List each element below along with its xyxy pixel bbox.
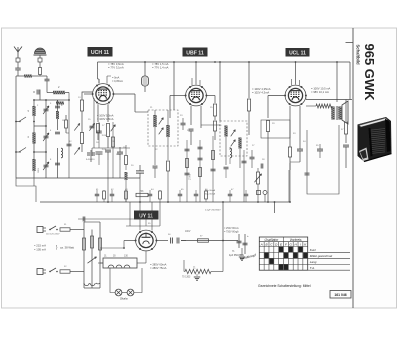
input capacitor (15, 67, 21, 69)
UBF11 bottom leads (190, 106, 192, 125)
choke coil (316, 104, 332, 108)
switch position table (259, 237, 307, 270)
UCH11 right lead (113, 93, 135, 95)
IF1 ground capacitor (153, 165, 158, 167)
electrolytic ground (241, 248, 243, 256)
UBF screen capacitor (189, 128, 194, 130)
input coil (24, 75, 32, 78)
svg-text:UY 11: UY 11 (139, 213, 153, 219)
mains plug upper (37, 227, 43, 233)
svg-text:= 78V 3,6mA: = 78V 3,6mA (108, 62, 124, 66)
tubular capacitor 14 (144, 62, 146, 76)
svg-text:161 046: 161 046 (334, 293, 346, 297)
AF filter chain 1 (186, 140, 188, 202)
chassis bus left step (16, 178, 36, 202)
antenna (14, 47, 22, 53)
decoupling capacitor UCH (105, 149, 111, 151)
lamp link wire (122, 292, 127, 294)
IF1 input wire (134, 94, 136, 112)
svg-text:T.A.: T.A. (310, 266, 315, 270)
earth antenna symbol (35, 48, 46, 54)
svg-text:= 77V 1,4 mA: = 77V 1,4 mA (152, 66, 169, 70)
filter components above bus (95, 193, 100, 195)
antenna lead wire (17, 62, 19, 66)
UY11 right lead (156, 240, 168, 242)
trimmer resistor 11 (65, 120, 68, 128)
UCH osc resistor (125, 156, 128, 165)
sidebar separator line (352, 28, 354, 308)
phono jack (257, 191, 261, 195)
UBF11 top leads (191, 78, 193, 85)
tube UY11 rectifier (136, 230, 157, 251)
svg-text:0,1μF 250/350V: 0,1μF 250/350V (205, 210, 221, 212)
coil 10 (56, 102, 64, 105)
IF1 primary coil (153, 115, 156, 127)
wire 223 down to tone (222, 241, 224, 272)
wire oscillator top (58, 99, 70, 101)
electrolytic capacitor 1 (238, 234, 240, 248)
svg-text:7000: 7000 (37, 168, 39, 174)
capacitor col4 mid (55, 131, 60, 133)
cathode capacitor UCH (117, 151, 123, 153)
svg-text:ca. 38 Watt: ca. 38 Watt (60, 246, 74, 250)
variable capacitor C1 (44, 108, 49, 110)
cathode resistor UCH (97, 124, 100, 133)
radio cabinet photo (358, 117, 392, 162)
junction under UBF (214, 61, 216, 63)
screen resistor UCH (106, 124, 109, 137)
dial lamp 2 (127, 289, 134, 296)
dropper resistor 3 (99, 238, 102, 250)
volume resistor (256, 172, 259, 184)
variable capacitor C3 (44, 164, 49, 166)
svg-text:= 77V 3,1mA: = 77V 3,1mA (108, 66, 124, 70)
svg-text:50μ 30mA: 50μ 30mA (205, 189, 216, 192)
heater feed wire (100, 262, 103, 264)
svg-text:B: B (266, 243, 268, 247)
svg-text:Schaltbild: Schaltbild (356, 45, 361, 65)
dropper resistor 1 (83, 238, 86, 250)
tuning section rail 3 (57, 100, 59, 130)
AF coupling capacitor (260, 164, 262, 169)
svg-text:100V: 100V (185, 231, 191, 233)
UCH11 top leads (98, 79, 100, 84)
svg-text:= 0,05mA: = 0,05mA (112, 80, 123, 83)
earth lead connector (38, 58, 42, 62)
svg-text:Mittel gezeichnet: Mittel gezeichnet (310, 254, 333, 258)
svg-text:110 125 220V: 110 125 220V (46, 234, 60, 236)
UCH bypass capacitor 7016 (96, 151, 103, 153)
hum capacitor (305, 172, 310, 174)
mains fuse lower (60, 270, 70, 273)
detector coil col4 (56, 111, 59, 119)
output wire UCL (306, 99, 352, 101)
tuning section left rail (33, 100, 35, 178)
UY11 left lead (124, 240, 136, 242)
svg-text:Lang: Lang (310, 260, 317, 264)
bus drop to UBF11 (195, 62, 197, 85)
tuning bottom wire (16, 177, 140, 179)
lamp return wire (134, 268, 142, 293)
coil col4 low (61, 148, 63, 158)
UCH11 bottom leads (97, 104, 99, 122)
IF1 trimmers (159, 118, 164, 125)
oscillator coil L1 (32, 106, 35, 116)
UBF11 right lead (206, 95, 215, 97)
label UY 11 (134, 211, 159, 220)
wire from chassis to tone (183, 260, 185, 272)
label UCH 11 (88, 47, 113, 57)
svg-text:= 100V 4,35mA: = 100V 4,35mA (252, 87, 271, 91)
bus junction dots (167, 201, 169, 203)
mains fuse upper (60, 228, 70, 231)
electrolytic capacitor 2 (244, 234, 246, 254)
svg-text:Skala: Skala (120, 297, 128, 301)
svg-text:= 102V 4,3mA: = 102V 4,3mA (252, 90, 269, 94)
antenna series capacitor (45, 78, 50, 80)
speaker field wiring box (307, 125, 339, 194)
variable capacitor C2 (44, 135, 49, 137)
svg-text:= 280V 75mA: = 280V 75mA (150, 266, 167, 270)
svg-text:= 100V 4,8mA: = 100V 4,8mA (97, 117, 114, 121)
output transformer primary (331, 107, 334, 120)
svg-text:UCH 11: UCH 11 (91, 50, 109, 56)
IF2 bottom coil (230, 148, 232, 158)
table filled cells (279, 247, 283, 252)
svg-text:A: A (260, 243, 263, 247)
UCL cathode capacitor (297, 148, 303, 150)
UCL cathode resistor (288, 147, 291, 157)
table row label lines (308, 251, 350, 253)
grid resistor R2 (80, 133, 83, 144)
oscillator vertical x94 (93, 98, 95, 148)
tuning top wire (34, 99, 58, 101)
oscillator padder capacitor (87, 152, 95, 154)
UBF anode wire (200, 125, 202, 128)
bus drop resistor to diode (248, 62, 250, 98)
link wire rows (34, 125, 46, 127)
UCL11 right lead (305, 96, 307, 100)
band switch 2 (15, 151, 17, 153)
IF2 output wires (239, 149, 241, 168)
svg-text:Vorkreis: Vorkreis (290, 238, 302, 242)
tube UBF11 (186, 85, 207, 106)
oscillator coil L3 (32, 159, 35, 171)
speaker box lower wire (288, 170, 290, 202)
rectifier feed wires (129, 202, 131, 226)
svg-text:UBF 11: UBF 11 (186, 50, 204, 56)
heater wires (98, 262, 103, 264)
wire tube1 grid (82, 92, 93, 96)
svg-text:70 1303: 70 1303 (182, 277, 191, 279)
capacitor col4 low (55, 162, 60, 164)
loudspeaker (342, 101, 348, 124)
UCH osc coil (125, 172, 128, 180)
tuning section rail 2 (45, 100, 47, 178)
AF filter chain 2 (199, 140, 201, 202)
oscillator trimmer arrow (90, 125, 95, 127)
IF1 bottom wires (154, 146, 156, 165)
band switch 1 (15, 121, 17, 123)
output transformer secondary (338, 107, 341, 120)
antenna series capacitor 4 (36, 90, 38, 95)
chassis drop right (274, 202, 276, 213)
resistor 53 horizontal (136, 193, 148, 196)
bus drop to output transformer (336, 62, 338, 102)
chassis bus wire (40, 201, 290, 203)
UCL11 bottom leads (289, 106, 291, 130)
junction dots tuning (33, 99, 35, 101)
ratio detector box (261, 120, 290, 138)
UCL grid resistor (266, 121, 269, 132)
UCH bypass capacitor 7014 (96, 130, 102, 132)
padder capacitor (55, 105, 60, 107)
UCL11 left lead (268, 95, 285, 97)
antenna connector (16, 58, 20, 62)
document number box (330, 291, 351, 299)
dial lamp wiring (110, 268, 115, 293)
bus right end drop (349, 62, 351, 100)
voltage selector network (83, 222, 85, 288)
selector arrow (87, 257, 96, 263)
IF2 trimmer arrows (231, 130, 236, 137)
mixer coupling capacitor (67, 143, 72, 145)
svg-text:+: + (247, 234, 249, 238)
mains plug lower (37, 269, 43, 275)
IF transformer 1 shield box (148, 110, 178, 146)
svg-text:Gezeichnete Schalterstellung:: Gezeichnete Schalterstellung: Mittel (258, 284, 311, 288)
anode rc capacitor (317, 148, 323, 150)
dial lamp 1 (115, 289, 122, 296)
diode load resistor 2 (213, 121, 216, 131)
svg-text:= 98V 10,1 mA: = 98V 10,1 mA (311, 90, 329, 94)
surge resistor 57 (198, 239, 209, 242)
oscillator coil L2 (32, 133, 35, 144)
barretter bumps (84, 283, 100, 286)
IF2 input wire (201, 124, 220, 126)
dropper resistor 2 (91, 236, 94, 248)
IF transformer 2 shield box (220, 121, 247, 156)
detector capacitor (250, 156, 255, 158)
mains switch upper (49, 229, 51, 231)
svg-text:+: + (236, 230, 238, 234)
svg-text:Δ 30/110: Δ 30/110 (86, 158, 95, 161)
wire to tuning section (16, 75, 18, 77)
left section bottom drops (33, 178, 35, 186)
UBF11 left lead (170, 95, 186, 97)
tone capacitor drop (345, 100, 347, 122)
coupling capacitor to UBF (181, 122, 186, 124)
mains rc capacitor (78, 218, 90, 220)
IF1 wiring (154, 127, 156, 146)
svg-text:≈ 105 mA: ≈ 105 mA (34, 248, 46, 252)
bypass capacitor big (136, 170, 144, 172)
tube UCH11 (93, 84, 114, 105)
AF resistor x213 (212, 136, 214, 202)
bus drop to IF1 (173, 62, 175, 110)
antenna coil primary (53, 91, 65, 94)
wave switch arrow 2 (74, 147, 80, 154)
bus left drop to UCH11 (97, 62, 99, 79)
UY11 top leads (139, 226, 141, 230)
svg-text:1TA d: 1TA d (189, 173, 192, 180)
output cathode wire (289, 163, 291, 170)
svg-text:50μ 30mA: 50μ 30mA (205, 193, 216, 196)
wire down from bus (222, 202, 224, 241)
IF2 secondary coil (238, 138, 241, 149)
label UBF 11 (183, 48, 208, 57)
UCH grid resistor chain (112, 122, 114, 178)
UCH11 left lead (84, 93, 93, 95)
grid resistor R1 (80, 100, 83, 111)
UCL11 top leads (291, 79, 293, 85)
mains switch lower (49, 271, 51, 273)
tone network resistor (185, 269, 211, 273)
rectifier output wire (181, 240, 238, 242)
wave switch arrow 1 (74, 123, 80, 130)
IF2 primary coil (224, 126, 227, 137)
tube UCL11 (285, 85, 306, 106)
svg-text:= 78V 1,5 mA: = 78V 1,5 mA (152, 62, 169, 66)
anode supply bus (98, 61, 351, 63)
svg-text:= 285V 60mA: = 285V 60mA (150, 263, 167, 267)
tuning vertical x69 (68, 100, 70, 178)
input resistor (39, 68, 42, 75)
AVC resistor (167, 161, 170, 171)
bus drop to UCL11 grid (295, 62, 297, 85)
svg-text:Oszillator: Oszillator (265, 238, 280, 242)
svg-text:Kurz: Kurz (310, 248, 317, 252)
label UCL 11 (286, 48, 310, 57)
sidebar top tick (346, 42, 354, 44)
smoothing capacitors 0.1 (170, 238, 172, 244)
svg-text:I: I (300, 243, 301, 247)
diode load resistor 1 (213, 104, 216, 116)
IF1 secondary coil (166, 125, 169, 137)
svg-text:965 GWK: 965 GWK (362, 44, 377, 102)
svg-text:= 100V 10,5 mA: = 100V 10,5 mA (311, 87, 331, 91)
wire row under UCH (92, 147, 130, 149)
svg-text:UCL 11: UCL 11 (289, 51, 306, 57)
IF2 bottom capacitor (224, 166, 229, 168)
heater dropper box (103, 258, 137, 268)
tone network ground (196, 274, 198, 276)
transformer core lines (335, 106, 337, 120)
AF coupling x244 (243, 150, 245, 202)
